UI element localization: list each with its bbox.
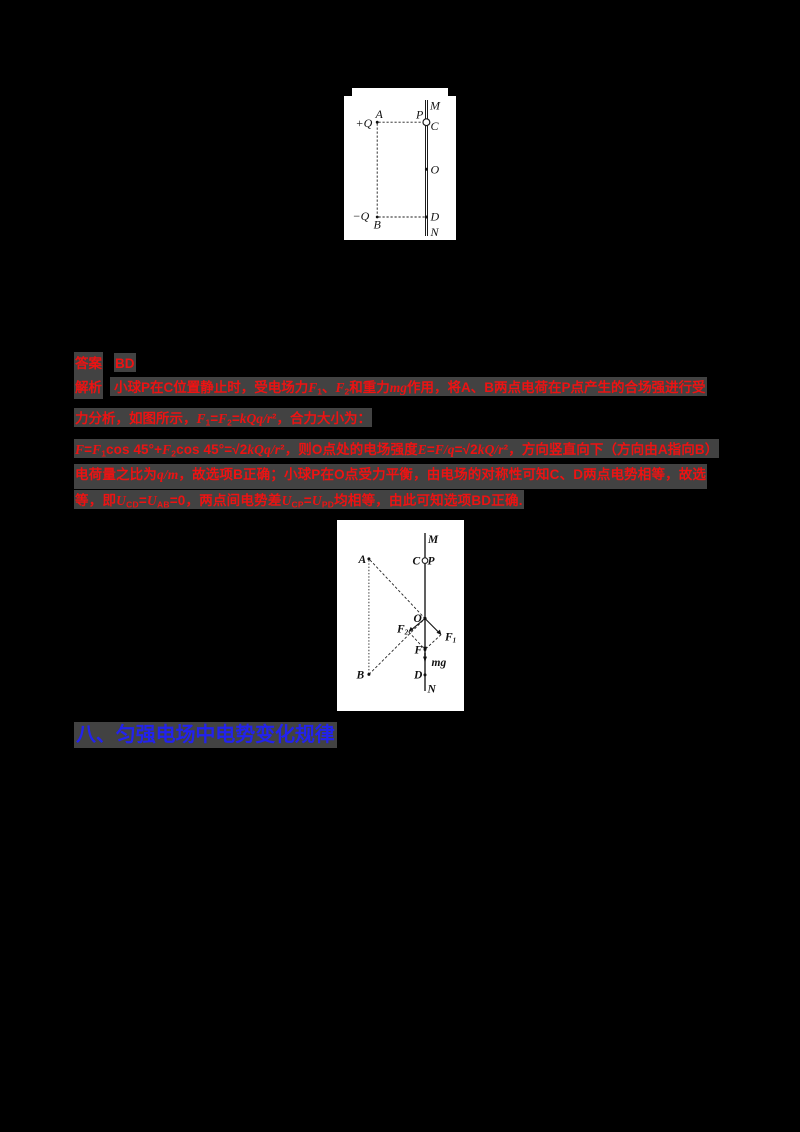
svg-text:C: C bbox=[413, 556, 421, 568]
svg-text:F2: F2 bbox=[396, 624, 409, 637]
svg-text:D: D bbox=[413, 670, 423, 682]
svg-text:A: A bbox=[375, 107, 384, 121]
svg-text:N: N bbox=[430, 225, 440, 239]
svg-text:N: N bbox=[427, 684, 437, 696]
svg-text:D: D bbox=[430, 210, 440, 224]
svg-text:C: C bbox=[431, 119, 440, 133]
ring at C bbox=[423, 119, 430, 126]
svg-text:M: M bbox=[427, 534, 439, 546]
svg-text:O: O bbox=[414, 613, 422, 625]
dashed wire B to O (under F2 arrow) bbox=[369, 619, 425, 675]
rod MN double line bbox=[425, 100, 427, 236]
line 2 解析 ... bbox=[75, 378, 102, 398]
node F dot bbox=[424, 648, 427, 651]
svg-text:+Q: +Q bbox=[356, 116, 373, 130]
dashed wire F2 to F bbox=[409, 632, 425, 650]
line 5 bbox=[74, 465, 707, 485]
figure 1 white background panel (stepped top) bbox=[352, 88, 448, 96]
wire dashed A to C bbox=[379, 121, 424, 123]
svg-text:P: P bbox=[428, 556, 436, 568]
node B dot bbox=[376, 216, 379, 219]
dotted wire A to B bbox=[368, 560, 370, 673]
svg-text:B: B bbox=[374, 218, 382, 232]
ring at C/P bbox=[422, 558, 428, 564]
figure 2 white background panel bbox=[337, 520, 464, 711]
svg-text:A: A bbox=[358, 554, 367, 566]
svg-text:F: F bbox=[414, 645, 423, 657]
force F2 arrow bbox=[408, 619, 425, 633]
line 1 答案 BD bbox=[75, 354, 102, 374]
node O dot bbox=[425, 168, 428, 171]
force F resultant arrowhead at F bbox=[423, 647, 427, 652]
force F1 arrow bbox=[425, 619, 441, 636]
dashed wire F1 to F bbox=[425, 635, 441, 650]
line 3 bbox=[74, 409, 372, 433]
node A dot bbox=[367, 557, 370, 560]
node B dot bbox=[367, 673, 370, 676]
svg-text:O: O bbox=[431, 163, 440, 177]
node D dot bbox=[425, 216, 428, 219]
svg-text:mg: mg bbox=[432, 657, 447, 669]
wire dashed A to B bbox=[376, 124, 378, 216]
svg-text:B: B bbox=[356, 670, 365, 682]
node D dot bbox=[424, 673, 427, 676]
rod MN single thick line bbox=[424, 533, 426, 691]
line 4 formula bbox=[74, 440, 719, 464]
figure 1 diagram bbox=[344, 85, 448, 240]
force mg arrow bbox=[423, 653, 427, 662]
svg-text:M: M bbox=[429, 99, 441, 113]
figure 2 diagram bbox=[337, 525, 463, 710]
dashed wire A to O bbox=[370, 560, 425, 619]
line 6 bbox=[74, 491, 524, 515]
wire dashed B to D bbox=[379, 216, 426, 218]
svg-text:−Q: −Q bbox=[353, 209, 370, 223]
label column box behind 答案/解析 bbox=[74, 352, 103, 399]
node A dot bbox=[376, 121, 379, 124]
svg-text:P: P bbox=[415, 108, 424, 122]
node O dot bbox=[423, 617, 426, 620]
blue section heading bbox=[74, 722, 337, 748]
svg-text:F1: F1 bbox=[444, 632, 456, 645]
